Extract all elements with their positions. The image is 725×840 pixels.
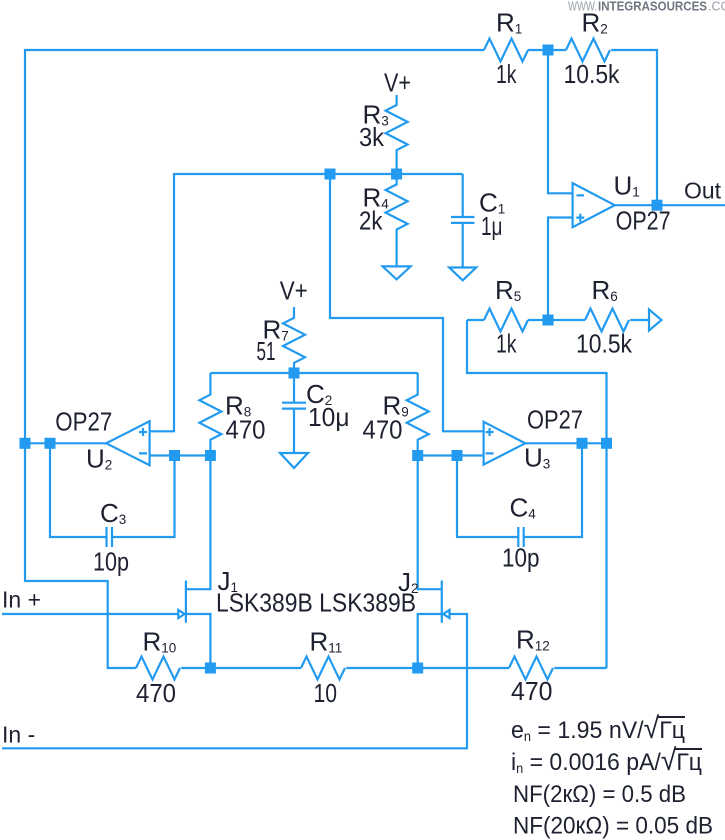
svg-text:1k: 1k: [496, 329, 517, 359]
svg-text:10: 10: [314, 678, 338, 708]
svg-text:470: 470: [136, 678, 176, 708]
svg-text:3k: 3k: [359, 122, 385, 152]
svg-text:10p: 10p: [502, 543, 540, 573]
svg-text:OP27: OP27: [527, 404, 583, 434]
svg-text:LSK389B LSK389B: LSK389B LSK389B: [216, 588, 416, 618]
svg-text:.COM: .COM: [708, 0, 725, 14]
svg-text:OP27: OP27: [55, 407, 112, 437]
svg-text:51: 51: [257, 336, 276, 366]
svg-text:In +: In +: [2, 587, 41, 613]
svg-text:OP27: OP27: [616, 206, 671, 236]
svg-text:INTEGRASOURCES: INTEGRASOURCES: [598, 0, 707, 14]
svg-text:NF(2кΩ) = 0.5 dB: NF(2кΩ) = 0.5 dB: [513, 781, 686, 808]
svg-text:10.5k: 10.5k: [564, 59, 621, 89]
svg-text:470: 470: [226, 415, 266, 445]
svg-text:Out: Out: [684, 178, 722, 204]
svg-text:470: 470: [511, 676, 553, 706]
svg-text:2k: 2k: [359, 206, 383, 236]
svg-text:10p: 10p: [93, 547, 129, 577]
svg-text:10μ: 10μ: [308, 402, 350, 432]
svg-text:10.5k: 10.5k: [576, 329, 633, 359]
svg-text:V+: V+: [280, 276, 308, 306]
svg-text:in = 0.0016 pA/√Гц: in = 0.0016 pA/√Гц: [511, 744, 702, 777]
svg-text:In -: In -: [2, 722, 35, 748]
svg-text:V+: V+: [384, 68, 411, 98]
svg-text:470: 470: [363, 415, 403, 445]
svg-text:NF(20кΩ) = 0.05 dB: NF(20кΩ) = 0.05 dB: [513, 813, 713, 840]
svg-text:1k: 1k: [496, 59, 517, 89]
svg-text:1μ: 1μ: [481, 211, 503, 241]
